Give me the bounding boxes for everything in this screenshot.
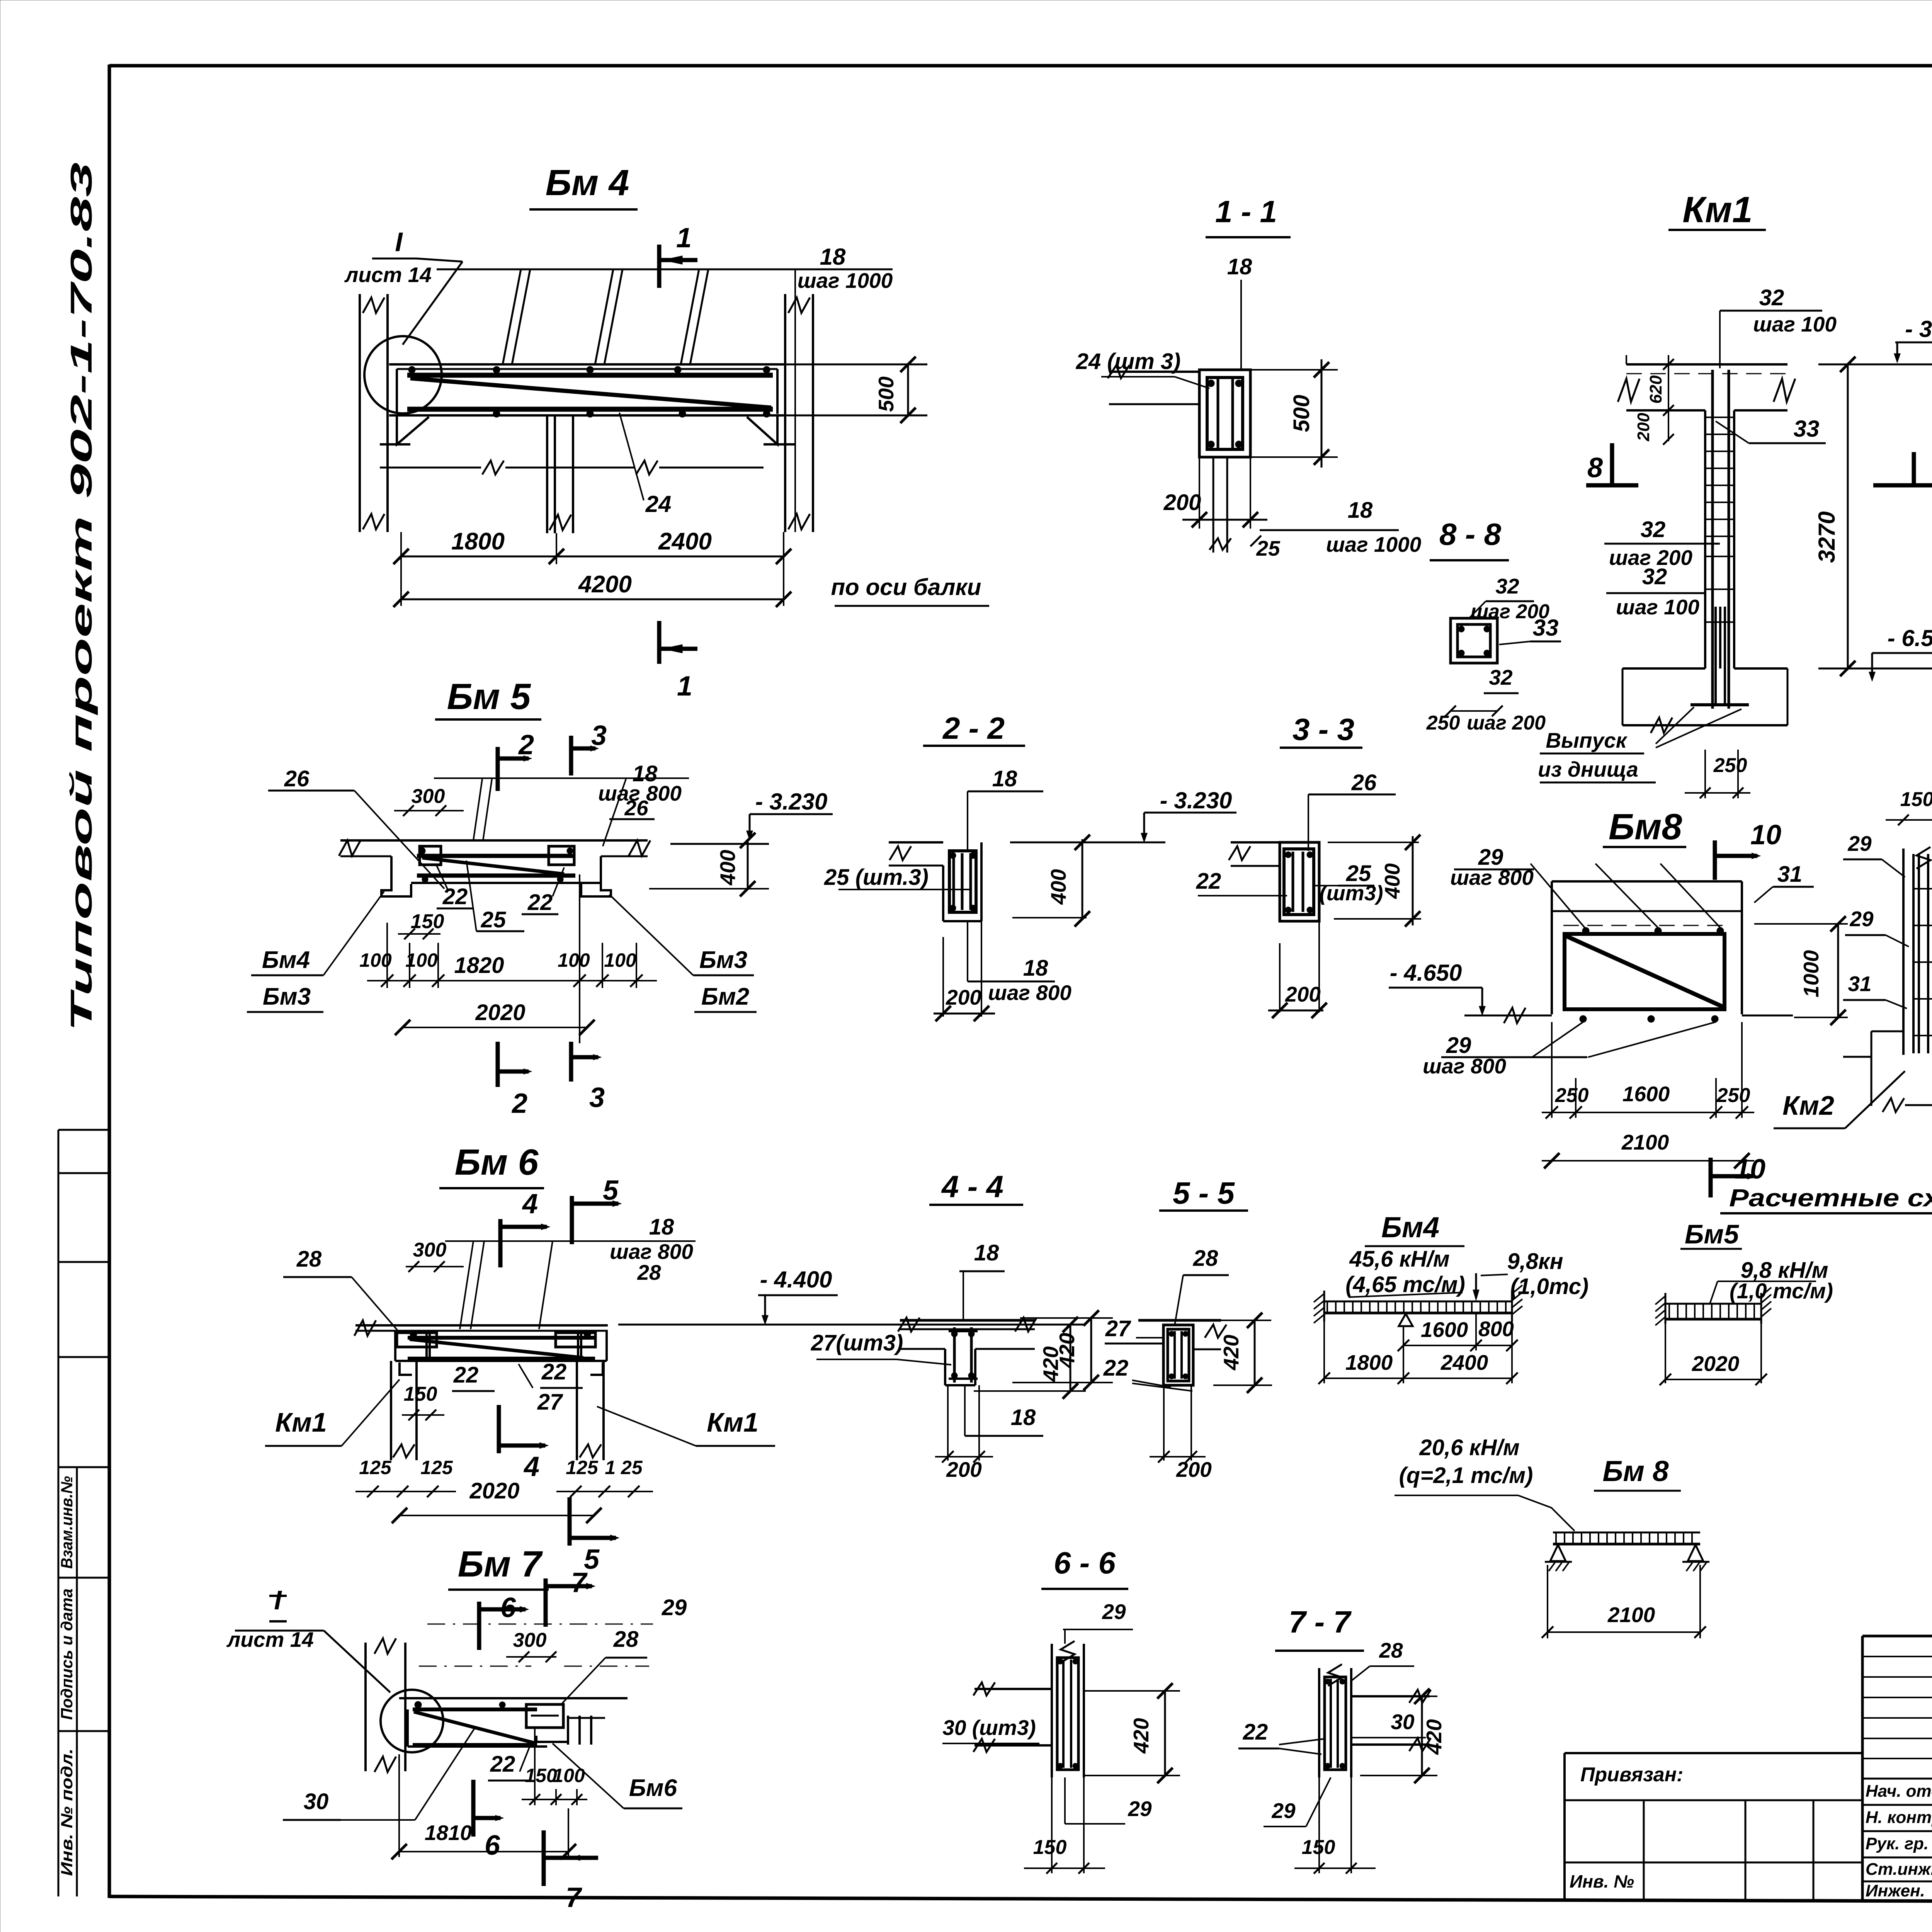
svg-text:9,8кн: 9,8кн [1507, 1249, 1563, 1274]
svg-text:250: 250 [1716, 1084, 1750, 1107]
section mark 5 top [570, 1196, 574, 1244]
side lines 5-5 [1105, 1343, 1163, 1345]
svg-text:250: 250 [1426, 712, 1460, 734]
section mark 4 top [498, 1219, 503, 1267]
middle columns [546, 415, 548, 533]
svg-text:500: 500 [874, 376, 898, 412]
svg-text:- 3.230: - 3.230 [755, 789, 828, 815]
svg-text:26: 26 [1351, 770, 1377, 795]
slab lines 2-2 [889, 841, 943, 844]
beam bar Бм4 scheme [1324, 1301, 1512, 1303]
svg-text:32: 32 [1641, 517, 1666, 542]
svg-text:шаг 800: шаг 800 [1450, 866, 1534, 889]
dim 420 Бм6 right [974, 1390, 1086, 1392]
svg-text:400: 400 [716, 850, 740, 886]
dimension 3270 [1847, 364, 1849, 668]
svg-text:3: 3 [589, 1082, 605, 1113]
section mark 2 bottom [496, 1042, 500, 1087]
svg-text:Бм 5: Бм 5 [447, 676, 531, 717]
dims 200 620 [1668, 364, 1669, 441]
svg-text:28: 28 [637, 1260, 661, 1284]
svg-text:300: 300 [513, 1629, 547, 1651]
svg-text:420: 420 [1422, 1719, 1446, 1755]
supports Бм5 scheme [1665, 1293, 1667, 1324]
svg-text:Рук. гр.: Рук. гр. [1866, 1834, 1929, 1853]
svg-text:400: 400 [1046, 869, 1070, 905]
svg-text:300: 300 [413, 1239, 447, 1261]
svg-text:2100: 2100 [1607, 1603, 1655, 1627]
web rect 3-3 [1280, 842, 1319, 921]
svg-text:2400: 2400 [658, 528, 712, 555]
svg-text:8: 8 [1587, 452, 1603, 483]
svg-text:Бм4: Бм4 [1381, 1211, 1439, 1243]
svg-text:Расчетные схемы балок: Расчетные схемы балок [1729, 1184, 1932, 1212]
dots Бм8 [1582, 927, 1589, 934]
svg-text:150: 150 [1033, 1836, 1067, 1859]
svg-text:(шт3): (шт3) [1319, 881, 1383, 905]
svg-text:Выпуск: Выпуск [1546, 728, 1628, 752]
slab 7-7 [1351, 1695, 1430, 1697]
wall 6-6 [1051, 1644, 1053, 1777]
svg-text:шаг 100: шаг 100 [1753, 312, 1837, 336]
svg-text:200: 200 [1285, 982, 1321, 1006]
svg-text:32: 32 [1495, 574, 1519, 598]
svg-text:24 (шт 3): 24 (шт 3) [1076, 349, 1181, 374]
svg-text:Км2: Км2 [1782, 1090, 1834, 1121]
svg-text:22: 22 [527, 890, 553, 915]
dims 1800 2400 [1323, 1321, 1325, 1383]
svg-text:22: 22 [1103, 1355, 1129, 1381]
beam axis line [794, 269, 796, 532]
svg-text:26: 26 [624, 796, 648, 820]
dimension 4200 [400, 564, 402, 606]
dim 2100 Бм8 scheme [1547, 1565, 1548, 1638]
svg-text:Коп. Прядко: Коп. Прядко [1890, 1929, 1932, 1932]
svg-text:29: 29 [1128, 1797, 1152, 1821]
footing 10-10 [1871, 1057, 1872, 1106]
svg-text:Инв. № подл.: Инв. № подл. [58, 1748, 76, 1876]
wall 10-10 [1902, 849, 1905, 1055]
svg-text:100: 100 [553, 1765, 585, 1786]
point load arrow [1475, 1273, 1477, 1293]
svg-text:6: 6 [485, 1830, 500, 1861]
svg-text:300: 300 [412, 785, 445, 808]
slab bottom lines 4-4 [900, 1348, 945, 1350]
section square 8-8 [1451, 618, 1497, 663]
svg-text:1000: 1000 [1799, 950, 1823, 997]
slab 6-6 [975, 1688, 1052, 1690]
svg-text:150: 150 [404, 1383, 437, 1405]
svg-text:18: 18 [1348, 498, 1373, 523]
beam bar Бм8 scheme [1553, 1532, 1700, 1534]
svg-text:8 - 8: 8 - 8 [1439, 517, 1502, 551]
svg-text:7 - 7: 7 - 7 [1289, 1605, 1352, 1639]
dimension 500 [1250, 369, 1338, 371]
svg-text:1 - 1: 1 - 1 [1215, 194, 1277, 229]
slab line left 3-3 [1231, 841, 1280, 844]
left column Бм4 [359, 294, 361, 532]
svg-text:150: 150 [1900, 788, 1932, 811]
stirrup leaders slanted [460, 1241, 473, 1329]
svg-text:250: 250 [1713, 754, 1747, 777]
dim 420 7-7 [1360, 1696, 1437, 1697]
svg-text:6 - 6: 6 - 6 [1054, 1546, 1116, 1580]
svg-text:22: 22 [490, 1752, 515, 1777]
bent bar diagonal [410, 378, 771, 408]
svg-text:шаг 200: шаг 200 [1467, 712, 1546, 734]
slab 4-4 [900, 1319, 1035, 1322]
svg-text:4: 4 [523, 1451, 539, 1482]
svg-text:Ст.инж.: Ст.инж. [1866, 1860, 1932, 1879]
svg-text:18: 18 [1011, 1405, 1036, 1430]
svg-text:2400: 2400 [1440, 1350, 1488, 1374]
svg-text:по оси балки: по оси балки [831, 574, 981, 600]
svg-text:Бм 7: Бм 7 [458, 1544, 543, 1585]
stirrup leaders slanted [473, 779, 482, 840]
svg-text:30: 30 [1391, 1710, 1415, 1734]
svg-text:1820: 1820 [454, 953, 504, 978]
ext lines below 5-5 [1163, 1385, 1165, 1461]
svg-text:1: 1 [677, 671, 692, 702]
svg-text:(1,0 тс/м): (1,0 тс/м) [1730, 1279, 1833, 1303]
right support Бм5 [581, 856, 611, 896]
svg-text:24: 24 [645, 491, 672, 517]
svg-text:- 3. 230: - 3. 230 [1905, 316, 1932, 342]
svg-text:Привязан:: Привязан: [1580, 1764, 1683, 1786]
svg-text:620: 620 [1646, 375, 1665, 404]
beam body Бм6 [394, 1331, 396, 1361]
svg-text:500: 500 [1289, 395, 1314, 432]
stirrup cage 6-6 [1057, 1658, 1078, 1770]
svg-text:27: 27 [1105, 1316, 1131, 1341]
svg-text:1800: 1800 [451, 528, 505, 555]
svg-text:29: 29 [662, 1595, 687, 1620]
left break column Бм7 [364, 1643, 367, 1771]
beam Бм4 outline [397, 368, 777, 370]
columns below Бм6 [390, 1361, 392, 1460]
svg-text:лист 14: лист 14 [344, 263, 432, 287]
bottom rebar bar [407, 407, 773, 412]
svg-text:Бм3: Бм3 [699, 947, 747, 973]
section mark 5 bottom [568, 1497, 572, 1546]
right column [784, 294, 786, 532]
dims 1600 800 [1403, 1326, 1404, 1383]
beam Бм7 body [406, 1709, 409, 1747]
slab lines [1109, 371, 1199, 373]
stirrup cage [1207, 378, 1243, 449]
svg-text:25 (шт.3): 25 (шт.3) [824, 865, 929, 890]
svg-text:Подпись и дата: Подпись и дата [58, 1588, 76, 1720]
section mark 6 bottom [471, 1780, 476, 1837]
svg-text:29: 29 [1271, 1799, 1296, 1823]
svg-text:30: 30 [304, 1789, 329, 1814]
svg-text:Бм8: Бм8 [1609, 806, 1682, 847]
svg-text:2020: 2020 [1692, 1352, 1740, 1376]
svg-text:45,6 кН/м: 45,6 кН/м [1349, 1247, 1449, 1272]
support corbel left [397, 415, 429, 444]
svg-text:Н. контр.: Н. контр. [1866, 1808, 1932, 1827]
section mark 7 bottom [542, 1830, 546, 1886]
svg-text:18: 18 [974, 1240, 999, 1265]
left margin boxes [58, 1130, 60, 1896]
svg-text:5 - 5: 5 - 5 [1173, 1176, 1235, 1210]
svg-text:3270: 3270 [1814, 511, 1840, 563]
stirrup cage 3-3 [1284, 849, 1314, 915]
svg-text:Бм 8: Бм 8 [1602, 1455, 1668, 1487]
slab line 5-5 [1138, 1319, 1221, 1322]
svg-text:I: I [274, 1585, 282, 1615]
svg-text:1600: 1600 [1421, 1318, 1468, 1342]
svg-text:2 - 2: 2 - 2 [942, 711, 1005, 745]
beam Бм4 slab line [389, 363, 784, 366]
svg-text:2: 2 [518, 730, 534, 760]
stirrup lines [503, 269, 521, 364]
svg-text:4: 4 [522, 1189, 538, 1219]
svg-text:250: 250 [1555, 1084, 1589, 1107]
dimension 500 right [782, 364, 927, 366]
Привязан box [1563, 1753, 1566, 1899]
svg-text:29: 29 [1849, 907, 1874, 931]
pin support triangle [1399, 1314, 1413, 1326]
end flanges Бм6 [397, 1333, 437, 1347]
svg-text:1810: 1810 [425, 1821, 472, 1845]
detail circle Бм7 [381, 1690, 443, 1752]
section mark 1 top [657, 245, 662, 288]
column below [1213, 457, 1214, 553]
svg-text:200: 200 [1163, 490, 1201, 515]
dashed line 2 [419, 1666, 531, 1667]
inner panel thick [1565, 934, 1725, 1009]
svg-text:200: 200 [1176, 1458, 1212, 1481]
svg-text:22: 22 [1196, 869, 1221, 894]
svg-text:4 - 4: 4 - 4 [941, 1169, 1003, 1204]
svg-text:30 (шт3): 30 (шт3) [942, 1716, 1036, 1740]
soffit line with breaks [380, 467, 481, 469]
svg-text:7: 7 [566, 1882, 582, 1913]
svg-text:1 25: 1 25 [605, 1457, 643, 1478]
dim 420 right 5-5 [1221, 1320, 1271, 1321]
svg-text:Взам.инв.№: Взам.инв.№ [58, 1476, 76, 1569]
section mark 10 bottom [1709, 1158, 1713, 1197]
svg-text:28: 28 [1193, 1246, 1218, 1271]
svg-text:27(шт3): 27(шт3) [811, 1330, 903, 1355]
svg-text:1800: 1800 [1345, 1350, 1393, 1374]
svg-text:420: 420 [1129, 1718, 1153, 1754]
svg-text:Бм5: Бм5 [1685, 1219, 1739, 1249]
svg-text:Инжен.: Инжен. [1866, 1881, 1925, 1900]
svg-text:29: 29 [1847, 832, 1872, 855]
svg-text:Бм3: Бм3 [263, 983, 311, 1010]
svg-text:шаг 1000: шаг 1000 [1326, 532, 1422, 556]
svg-text:27: 27 [537, 1389, 563, 1415]
svg-text:2: 2 [511, 1088, 527, 1119]
dim 400 2-2 [1010, 842, 1165, 844]
title block signature grid [1861, 1636, 1864, 1899]
dim 2020 scheme Бм5 [1665, 1324, 1666, 1383]
stirrup cage 7-7 [1325, 1677, 1346, 1770]
svg-text:31: 31 [1777, 862, 1803, 887]
svg-text:- 4.650: - 4.650 [1390, 960, 1462, 986]
right support hatch [1511, 1291, 1513, 1321]
column Км1 [1704, 410, 1706, 668]
svg-text:29: 29 [1102, 1600, 1126, 1624]
rect 5-5 [1163, 1325, 1193, 1385]
svg-text:10: 10 [1735, 1154, 1765, 1185]
svg-text:4200: 4200 [578, 571, 632, 598]
svg-text:(1,0тс): (1,0тс) [1510, 1274, 1588, 1299]
svg-text:шаг 800: шаг 800 [988, 981, 1071, 1005]
svg-text:Бм4: Бм4 [262, 947, 310, 973]
svg-text:28: 28 [296, 1247, 322, 1272]
dim 1000 Бм8 [1837, 924, 1839, 1017]
svg-text:18: 18 [1023, 956, 1048, 981]
beam Бм8 outline [1552, 880, 1742, 883]
svg-text:25: 25 [481, 907, 506, 932]
rebar hooks bottom [1714, 607, 1717, 668]
Бм6 cross-section hatched [567, 1716, 569, 1745]
svg-text:6: 6 [500, 1592, 516, 1623]
rebar dots [408, 366, 415, 373]
section mark 10 top [1713, 840, 1717, 880]
stirrup ticks [1705, 417, 1734, 418]
stirrup cage 2-2 [949, 851, 976, 912]
svg-text:Бм6: Бм6 [629, 1775, 677, 1801]
svg-text:шаг 800: шаг 800 [1423, 1054, 1506, 1078]
svg-text:5: 5 [603, 1175, 619, 1206]
rebar bars Бм6 [408, 1336, 595, 1340]
section mark 3 bottom [569, 1042, 573, 1082]
dimension 1800 2400 [400, 532, 402, 564]
svg-text:- 3.230: - 3.230 [1160, 787, 1232, 813]
svg-text:Км1: Км1 [707, 1407, 759, 1437]
wall rebar [1912, 854, 1915, 1053]
dimension 200 [1199, 457, 1200, 529]
dim 400 Бм5 [747, 840, 749, 889]
svg-text:2020: 2020 [475, 1000, 525, 1025]
svg-text:420: 420 [1219, 1335, 1243, 1371]
svg-text:18: 18 [1227, 254, 1252, 279]
support triangles Бм8 [1550, 1545, 1566, 1561]
stirrup top line [437, 269, 893, 270]
sheet border frame [108, 65, 111, 1898]
svg-text:31: 31 [1848, 972, 1871, 996]
svg-text:420: 420 [1055, 1333, 1079, 1369]
svg-text:3: 3 [591, 720, 607, 751]
svg-text:I: I [395, 227, 403, 257]
section mark 6 top [477, 1602, 481, 1650]
svg-text:200: 200 [946, 1458, 982, 1481]
svg-text:150: 150 [411, 910, 444, 933]
svg-text:800: 800 [1478, 1317, 1514, 1341]
svg-text:1: 1 [676, 223, 692, 253]
detail circle [364, 336, 442, 413]
column below 2-2 [942, 937, 944, 1017]
svg-text:(q=2,1 тс/м): (q=2,1 тс/м) [1399, 1463, 1533, 1488]
svg-text:Км1: Км1 [1682, 189, 1753, 230]
svg-text:100: 100 [558, 949, 590, 971]
svg-text:22: 22 [541, 1359, 567, 1384]
section mark 2 top [496, 747, 500, 791]
left support hatch [1323, 1291, 1325, 1321]
svg-text:100: 100 [604, 949, 636, 971]
slab lines Бм6 [355, 1324, 608, 1327]
svg-text:200: 200 [946, 985, 981, 1009]
top rebar bar 24 [407, 373, 773, 378]
svg-text:шаг 100: шаг 100 [1616, 595, 1699, 619]
column rebar [1711, 370, 1714, 709]
svg-text:- 4.400: - 4.400 [760, 1267, 832, 1293]
svg-text:200: 200 [1634, 413, 1653, 442]
right flange Бм7 [526, 1704, 563, 1728]
svg-text:из днища: из днища [1538, 757, 1638, 781]
diagonal bar Бм8 [1566, 936, 1723, 1007]
svg-text:18: 18 [649, 1214, 674, 1240]
svg-text:125: 125 [566, 1457, 599, 1478]
svg-text:32: 32 [1489, 665, 1513, 689]
rebar bars Бм5 [417, 854, 575, 858]
section mark 1 bottom [657, 621, 662, 664]
left support Бм5 [381, 856, 411, 896]
section mark 3 top [569, 736, 573, 776]
svg-text:10: 10 [1750, 820, 1781, 850]
svg-text:400: 400 [1380, 863, 1404, 899]
svg-text:Бм 4: Бм 4 [546, 162, 629, 203]
svg-text:33: 33 [1794, 416, 1820, 442]
rebar bars Бм7 [413, 1708, 537, 1711]
svg-text:18: 18 [820, 244, 846, 270]
bracket below right [536, 1736, 568, 1742]
section mark 7 top [544, 1578, 548, 1627]
stirrup cage left [420, 846, 441, 865]
stirrups 4-4 [953, 1327, 956, 1383]
support brackets Бм6 [400, 1362, 412, 1375]
dim 400 3-3 [1328, 842, 1419, 843]
beam Бм7 lines [399, 1697, 628, 1699]
svg-text:125: 125 [420, 1457, 453, 1478]
svg-text:Км1: Км1 [275, 1407, 327, 1437]
dim 420 6-6 [1084, 1690, 1180, 1692]
svg-text:32: 32 [1642, 564, 1667, 589]
svg-text:шаг 1000: шаг 1000 [798, 269, 893, 293]
svg-text:22: 22 [453, 1362, 479, 1388]
svg-text:шаг 800: шаг 800 [610, 1240, 693, 1264]
svg-text:33: 33 [1533, 615, 1559, 641]
beam bar Бм5 scheme [1665, 1303, 1761, 1305]
svg-text:- 6.500: - 6.500 [1888, 625, 1932, 651]
svg-text:25: 25 [1256, 536, 1281, 560]
svg-text:Типовой проект 902-1-70.83: Типовой проект 902-1-70.83 [64, 162, 98, 1032]
svg-text:125: 125 [359, 1457, 392, 1478]
svg-text:Нач. отд.: Нач. отд. [1866, 1782, 1932, 1801]
svg-text:2020: 2020 [469, 1478, 519, 1503]
svg-text:22: 22 [1243, 1719, 1268, 1745]
web outline 2-2 [942, 866, 944, 921]
svg-text:1600: 1600 [1622, 1082, 1670, 1106]
step bottom left [1871, 1031, 1903, 1032]
support corbel right [747, 415, 777, 444]
dim 420 4-4 [1020, 1317, 1113, 1319]
svg-text:20,6 кН/м: 20,6 кН/м [1419, 1435, 1519, 1460]
ext lines below web [947, 1385, 949, 1461]
wall 7-7 [1318, 1668, 1320, 1777]
slab lines Бм5 [340, 839, 648, 842]
slab at top [1626, 363, 1787, 366]
column below 3-3 [1279, 943, 1281, 1012]
web 4-4 [944, 1349, 946, 1385]
svg-text:Бм2: Бм2 [701, 983, 749, 1010]
footing Км1 [1622, 667, 1705, 670]
svg-text:26: 26 [284, 766, 310, 791]
